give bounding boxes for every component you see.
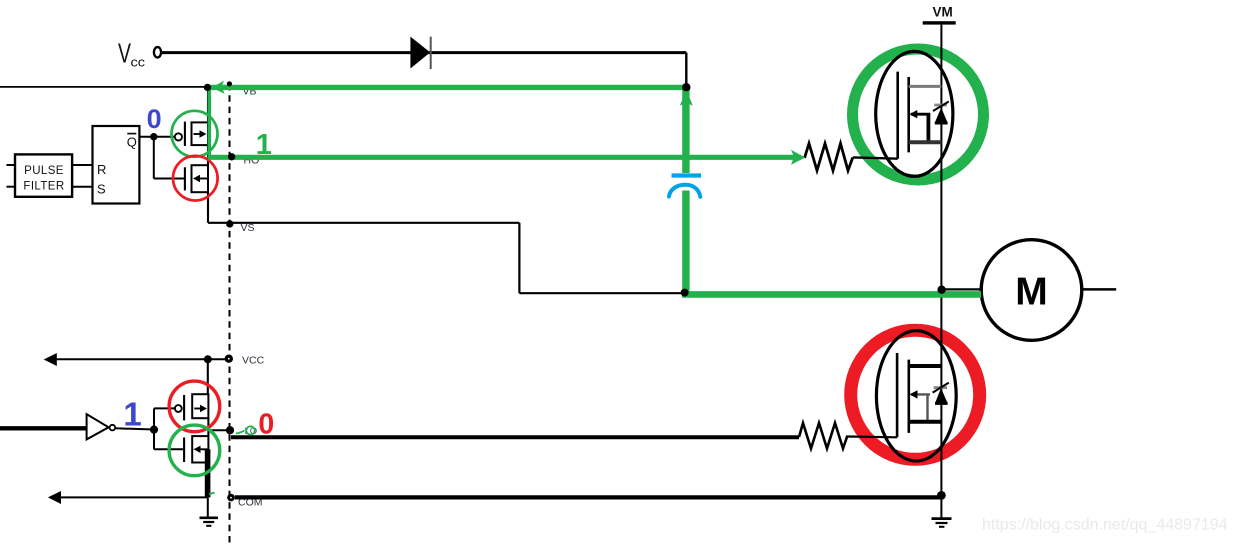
- svg-text:R: R: [97, 162, 106, 177]
- svg-text:cc: cc: [131, 55, 146, 70]
- svg-text:FILTER: FILTER: [23, 181, 64, 193]
- svg-text:1: 1: [256, 129, 272, 161]
- svg-text:1: 1: [123, 396, 141, 433]
- svg-text:PULSE: PULSE: [24, 165, 64, 177]
- svg-text:VM: VM: [933, 5, 953, 20]
- svg-text:0: 0: [258, 408, 274, 440]
- svg-text:Q: Q: [127, 134, 137, 149]
- svg-text:0: 0: [147, 104, 162, 134]
- svg-text:M: M: [1015, 271, 1048, 314]
- svg-text:S: S: [97, 182, 106, 197]
- svg-text:V: V: [118, 38, 131, 69]
- svg-text:VCC: VCC: [242, 355, 265, 367]
- svg-text:https://blog.csdn.net/qq_44897: https://blog.csdn.net/qq_44897194: [982, 517, 1228, 534]
